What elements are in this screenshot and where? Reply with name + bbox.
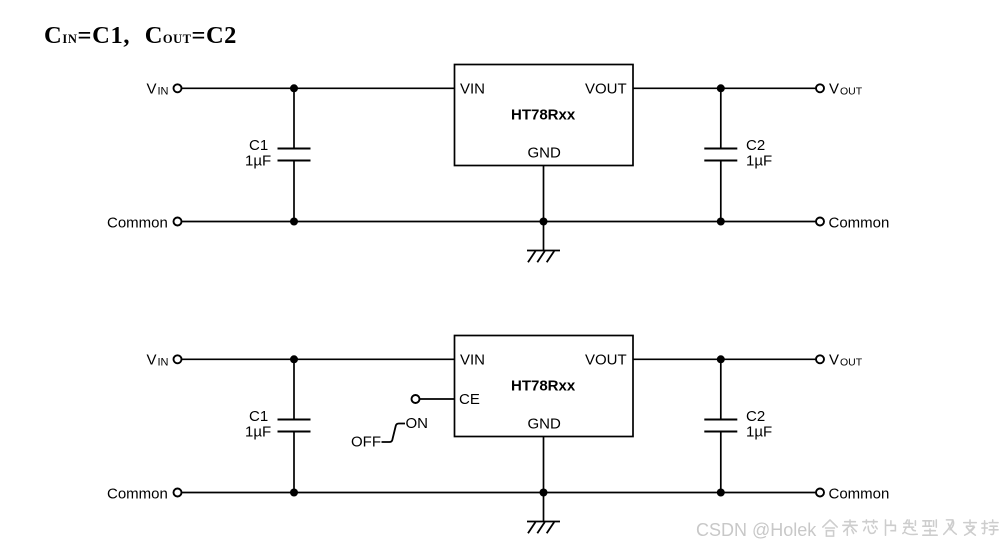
ground symbol (top circuit) (527, 251, 560, 263)
wire GND stub (top circuit) (543, 166, 545, 251)
title CIN=C1, COUT=C2 (44, 22, 237, 49)
svg-text:IN: IN (158, 86, 169, 98)
junction VIN/C1 (bottom circuit) (290, 355, 298, 363)
svg-text:V: V (829, 81, 839, 98)
svg-text:Common: Common (107, 485, 168, 502)
node VOUT terminal (bottom circuit) (816, 352, 863, 369)
svg-text:COUT=C2: COUT=C2 (145, 22, 237, 49)
svg-text:CSDN @Holek: CSDN @Holek (696, 520, 817, 540)
svg-text:OUT: OUT (840, 357, 863, 369)
node CE terminal (bottom circuit) (412, 395, 420, 403)
ground symbol (bottom circuit) (527, 522, 560, 534)
node Common right terminal (top circuit) (816, 214, 889, 231)
svg-text:C2: C2 (746, 137, 765, 154)
svg-text:HT78Rxx: HT78Rxx (511, 107, 576, 124)
svg-text:HT78Rxx: HT78Rxx (511, 378, 576, 395)
svg-text:1µF: 1µF (245, 424, 271, 441)
node VIN terminal (top circuit) (147, 81, 182, 98)
node VIN terminal (bottom circuit) (147, 352, 182, 369)
wire Common rail (top circuit) (182, 221, 816, 223)
junction GND/Common (bottom circuit) (540, 489, 548, 497)
svg-text:Common: Common (829, 485, 890, 502)
svg-text:1µF: 1µF (746, 424, 772, 441)
node VOUT terminal (top circuit) (816, 81, 863, 98)
wire Common rail (bottom circuit) (182, 492, 816, 494)
junction VOUT/C2 (top circuit) (717, 84, 725, 92)
label C1 value (bottom circuit) (245, 408, 271, 441)
svg-text:Common: Common (829, 214, 890, 231)
op-amp U2 HT78Rxx (bottom circuit) regulator box (455, 336, 634, 437)
svg-text:V: V (147, 352, 157, 369)
capacitor C1 (bottom circuit) (278, 359, 311, 492)
svg-text:C2: C2 (746, 408, 765, 425)
junction C1/Common (top circuit) (290, 218, 298, 226)
svg-text:CE: CE (459, 391, 480, 408)
svg-text:ON: ON (406, 415, 429, 432)
svg-text:GND: GND (528, 416, 562, 433)
svg-text:VOUT: VOUT (585, 351, 627, 368)
op-amp U1 HT78Rxx (top circuit) regulator box (455, 65, 634, 166)
label C1 value (top circuit) (245, 137, 271, 170)
node Common left terminal (top circuit) (107, 214, 182, 231)
junction C2/Common (bottom circuit) (717, 489, 725, 497)
watermark chinese glyphs (823, 520, 998, 536)
svg-text:C1: C1 (249, 408, 268, 425)
svg-text:V: V (147, 81, 157, 98)
switch waveform OFF/ON (bottom circuit) (351, 415, 428, 451)
junction VIN/C1 (top circuit) (290, 84, 298, 92)
capacitor C2 (bottom circuit) (704, 359, 737, 492)
wire VIN to regulator (bottom circuit) (182, 358, 455, 360)
svg-text:OUT: OUT (840, 86, 863, 98)
svg-text:VIN: VIN (460, 80, 485, 97)
svg-text:1µF: 1µF (245, 153, 271, 170)
node Common right terminal (bottom circuit) (816, 485, 889, 502)
svg-text:V: V (829, 352, 839, 369)
svg-text:VIN: VIN (460, 351, 485, 368)
svg-text:C1: C1 (249, 137, 268, 154)
svg-text:IN: IN (158, 357, 169, 369)
label C2 value (top circuit) (746, 137, 772, 170)
svg-text:GND: GND (528, 145, 562, 162)
capacitor C1 (top circuit) (278, 88, 311, 221)
svg-text:VOUT: VOUT (585, 80, 627, 97)
node Common left terminal (bottom circuit) (107, 485, 182, 502)
wire VOUT to output terminal (bottom circuit) (633, 358, 816, 360)
svg-text:1µF: 1µF (746, 153, 772, 170)
svg-text:CIN=C1,: CIN=C1, (44, 22, 130, 49)
wire CE (bottom circuit) (420, 398, 455, 400)
wire VOUT to output terminal (top circuit) (633, 87, 816, 89)
junction C1/Common (bottom circuit) (290, 489, 298, 497)
wire GND stub (bottom circuit) (543, 437, 545, 522)
wire VIN to regulator (top circuit) (182, 87, 455, 89)
svg-text:Common: Common (107, 214, 168, 231)
junction VOUT/C2 (bottom circuit) (717, 355, 725, 363)
junction GND/Common (top circuit) (540, 218, 548, 226)
watermark CSDN (696, 520, 817, 540)
svg-text:OFF: OFF (351, 434, 381, 451)
label C2 value (bottom circuit) (746, 408, 772, 441)
capacitor C2 (top circuit) (704, 88, 737, 221)
junction C2/Common (top circuit) (717, 218, 725, 226)
